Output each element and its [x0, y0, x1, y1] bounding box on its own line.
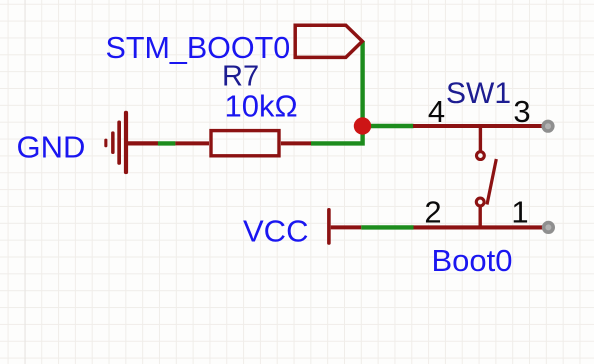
SW1 lever — [487, 159, 496, 205]
ground symbol GND — [104, 111, 158, 174]
SW1 top stub — [479, 126, 482, 151]
wire GND to R7 — [158, 141, 176, 145]
svg-text:SW1: SW1 — [446, 77, 511, 110]
wire junction to SW1 pin 4 — [363, 124, 414, 128]
SW1 pin 3 — [481, 124, 548, 128]
SW1 pin 4 — [413, 124, 481, 128]
SW1 top contact circle — [477, 152, 485, 160]
svg-text:STM_BOOT0: STM_BOOT0 — [106, 31, 291, 65]
svg-text:Boot0: Boot0 — [432, 243, 513, 278]
svg-text:3: 3 — [513, 94, 530, 129]
svg-text:VCC: VCC — [243, 214, 308, 249]
svg-text:10kΩ: 10kΩ — [225, 89, 298, 124]
SW1 bottom stub — [479, 207, 482, 228]
switch SW1 body — [413, 126, 548, 227]
junction — [354, 117, 371, 134]
no-connect pad on pin 3 — [541, 120, 554, 133]
svg-text:1: 1 — [511, 195, 528, 230]
svg-text:2: 2 — [424, 195, 441, 230]
SW1 pin 1 — [480, 225, 548, 229]
SW1 bottom contact circle — [476, 198, 484, 206]
wire R7 to junction and up to STM_BOOT0 — [311, 41, 363, 143]
SW1 pin 2 — [413, 225, 480, 229]
power symbol VCC — [327, 208, 361, 245]
svg-text:4: 4 — [428, 94, 445, 129]
global label STM_BOOT0 flag — [295, 25, 362, 57]
resistor R7 — [175, 131, 311, 156]
no-connect pad on pin 1 — [542, 221, 555, 234]
wire VCC to SW1 pin 2 — [361, 225, 413, 229]
svg-text:GND: GND — [17, 130, 86, 165]
